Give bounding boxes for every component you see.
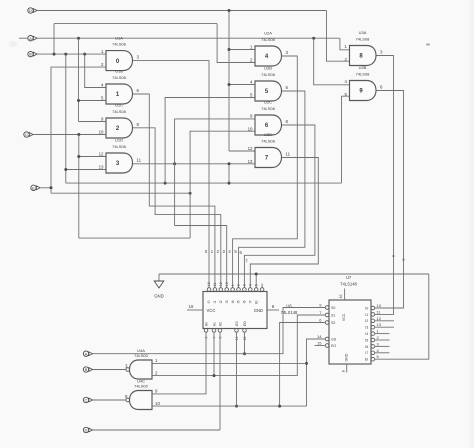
svg-text:U1B: U1B <box>115 69 123 74</box>
svg-text:GS: GS <box>235 321 239 327</box>
svg-text:A: A <box>29 36 32 41</box>
wire net E ext staircase <box>51 192 190 194</box>
svg-text:A: A <box>85 351 88 356</box>
U7 right pin 13 <box>371 325 375 329</box>
U6 top pin bubble 3 <box>219 288 223 292</box>
svg-text:12: 12 <box>248 146 253 151</box>
node net A branch2 <box>312 37 315 40</box>
U7 right pin 3 <box>371 345 375 349</box>
node net A branch1 <box>77 37 80 40</box>
svg-text:E: E <box>32 185 35 190</box>
svg-text:U3B: U3B <box>359 65 367 70</box>
wire net D horizontal <box>37 10 326 12</box>
svg-text:12: 12 <box>99 152 104 157</box>
svg-text:74LS08: 74LS08 <box>261 106 276 111</box>
svg-text:GS: GS <box>331 338 337 342</box>
svg-text:12: 12 <box>219 282 223 286</box>
wire net 7 from U2D out <box>250 158 318 288</box>
wire port A bottom to U7 A0 <box>93 308 325 354</box>
U7 right pin 1 <box>371 332 375 336</box>
svg-text:I4: I4 <box>231 300 235 303</box>
wire net 9 from U3B out to U7 pin 10 <box>375 91 404 309</box>
IC U7 74LS148 body <box>329 300 371 364</box>
wire net B horizontal to U1A pin 1 <box>37 53 106 55</box>
U7 right pin 12 <box>371 319 375 323</box>
svg-text:B: B <box>29 52 32 57</box>
U6 pin8 GND stub <box>267 309 279 311</box>
wire U6 EO down <box>244 336 246 354</box>
U6 bottom pin 14 <box>235 329 239 333</box>
output port D bottom <box>83 427 92 432</box>
U6 pin16 VCC stub <box>187 309 203 311</box>
svg-text:16: 16 <box>339 295 343 299</box>
svg-text:I1: I1 <box>365 313 368 317</box>
wire net B top rail <box>54 23 217 25</box>
node net B ext riser <box>164 182 167 185</box>
AND gate U1D 74LS08 <box>106 153 133 173</box>
wire GND to U7 EI <box>375 274 429 359</box>
svg-text:U3A: U3A <box>359 30 367 35</box>
AND gate U1B 74LS08 <box>106 84 133 104</box>
svg-text:5: 5 <box>254 284 258 286</box>
wire U7 pin 15 stub <box>315 345 326 347</box>
svg-text:13: 13 <box>377 322 382 327</box>
AND gate U2A 74LS08 <box>255 46 282 66</box>
node U7 A2 join <box>278 405 281 408</box>
svg-text:10: 10 <box>99 130 104 135</box>
wire U7 A2 to U4C pin 10 line <box>280 323 326 407</box>
wire U7 A1 to U4A pin 2 line <box>152 315 325 376</box>
wire net 2 from U1C out <box>133 128 221 288</box>
wire net D branch vertical x229 <box>228 11 230 152</box>
wire riser to U2B pin 5 <box>165 98 255 184</box>
U6 top pin bubble 10 <box>260 288 264 292</box>
wire net 3 from U1D out to U2D pin 13 <box>132 163 255 165</box>
node pin14 net at U4A pin 1 <box>305 362 308 365</box>
wire to U1C pin 9 <box>79 121 107 123</box>
svg-text:I6: I6 <box>243 300 247 303</box>
svg-text:12: 12 <box>377 316 382 321</box>
svg-text:10: 10 <box>377 303 382 308</box>
node net E <box>50 186 53 189</box>
wire net 3 drop to net B rail <box>228 164 230 183</box>
node net B j2 <box>64 53 67 56</box>
ground symbol <box>158 274 160 281</box>
node GS join <box>235 405 238 408</box>
svg-text:EO: EO <box>243 321 247 326</box>
output port A bottom <box>83 351 92 356</box>
svg-text:U2A: U2A <box>264 31 272 36</box>
U6 bottom pin 15 <box>243 329 247 333</box>
U6 bottom pin 9 <box>204 329 208 333</box>
wire net A horizontal <box>37 37 340 39</box>
wire to U1D pin 13 <box>66 169 106 171</box>
wire port D bottom <box>93 429 220 431</box>
svg-text:GND: GND <box>254 308 263 313</box>
wire net A vertical x78.5 <box>78 38 80 121</box>
wire net B rail down to U2A pin 2 <box>217 24 255 63</box>
U6 top pin bubble 8 <box>249 288 253 292</box>
wire to U2A pin 1 <box>229 49 255 51</box>
svg-text:8: 8 <box>341 370 345 372</box>
U7 left pin 14 <box>325 337 329 341</box>
svg-text:A2: A2 <box>218 322 222 326</box>
wire net C vertical <box>78 135 80 239</box>
U6 top pin bubble 9 <box>254 288 258 292</box>
svg-text:A1: A1 <box>212 322 216 326</box>
U6 top pin bubble 6 <box>237 288 241 292</box>
output port B bottom <box>83 367 92 372</box>
wire GND to U5 EI <box>255 274 257 288</box>
U7 left pin 7 <box>325 313 329 317</box>
AND gate U1C 74LS08 <box>106 118 133 138</box>
svg-text:13: 13 <box>99 165 104 170</box>
wire net A stub <box>19 37 28 39</box>
svg-text:VCC: VCC <box>342 313 346 321</box>
svg-text:U2D: U2D <box>264 132 272 137</box>
wire net 3 staircase to encoder <box>175 226 227 288</box>
wire U1A pin 2 feed <box>51 67 106 193</box>
U7 right pin 10 <box>371 306 375 310</box>
svg-text:74LS00: 74LS00 <box>134 383 149 388</box>
svg-text:S1: S1 <box>331 314 335 318</box>
svg-text:11: 11 <box>213 283 217 287</box>
svg-text:74LS08: 74LS08 <box>261 138 276 143</box>
svg-text:10: 10 <box>207 282 211 286</box>
svg-text:74LS08: 74LS08 <box>261 72 276 77</box>
svg-text:VCC: VCC <box>207 308 216 313</box>
NAND gate U4A 74LS00 <box>130 360 153 379</box>
svg-text:U1D: U1D <box>115 138 123 143</box>
wire U6 GS down <box>236 336 238 407</box>
IC U6 74LS148 priority encoder body <box>203 292 267 329</box>
wire net A to U3B pin 4 <box>314 38 350 85</box>
U7 right pin 5 <box>371 357 375 361</box>
U6 top pin bubble 1 <box>207 288 211 292</box>
U7 left pin 6 <box>325 321 329 325</box>
U6 bottom pin 6 <box>218 329 222 333</box>
svg-text:U2B: U2B <box>264 66 272 71</box>
svg-text:U1A: U1A <box>115 35 123 40</box>
wire to U2D pin 12 <box>229 150 255 152</box>
wire port E line <box>40 187 51 189</box>
svg-text:I7: I7 <box>249 300 253 303</box>
wire net 0 from U1A out <box>133 61 210 288</box>
svg-text:13: 13 <box>248 159 253 164</box>
wire net C horizontal to U1C pin 10 <box>33 134 106 136</box>
wire net A to U3A pin 1 <box>340 38 350 50</box>
svg-text:11: 11 <box>286 152 291 157</box>
svg-text:74LS148: 74LS148 <box>340 282 357 287</box>
wire U7 pin 14 to U4 pins <box>307 339 326 406</box>
wire U3B pin 5 from net B ext <box>342 96 350 183</box>
svg-text:EO: EO <box>331 344 336 348</box>
node net 3 branch <box>173 162 176 165</box>
svg-text:D: D <box>29 8 32 13</box>
svg-text:GND: GND <box>344 353 348 361</box>
svg-text:B: B <box>85 367 88 372</box>
svg-text:3: 3 <box>243 284 247 286</box>
node net E riser join <box>189 192 192 195</box>
wire U4C pin 10 line <box>152 405 307 407</box>
AND gate U2D 74LS08 <box>255 148 282 168</box>
output port C bottom <box>83 397 92 402</box>
svg-text:16: 16 <box>189 304 194 309</box>
svg-text:15: 15 <box>317 340 322 345</box>
svg-text:A0: A0 <box>204 322 208 326</box>
wire to U2B pin 4 <box>229 84 255 86</box>
input port B <box>28 51 37 56</box>
U6 bottom pin 7 <box>212 329 216 333</box>
wire U4C output to port C <box>89 399 126 401</box>
AND gate U2B 74LS08 <box>255 81 282 101</box>
scan artifacts <box>469 0 474 448</box>
wire net 1 from U1B out <box>133 94 215 288</box>
wire to U1D pin 12 <box>79 156 106 158</box>
svg-text:14: 14 <box>317 334 322 339</box>
wire to U1B pin 5 <box>79 100 107 102</box>
wire U6 A2 to port D <box>219 336 221 431</box>
node GND j <box>255 273 258 276</box>
input port C <box>24 132 33 137</box>
svg-text:74LS08: 74LS08 <box>356 36 371 41</box>
U7 right pin stubs I4-I7 <box>375 333 390 335</box>
svg-text:I1: I1 <box>213 300 217 303</box>
svg-text:EI: EI <box>254 300 258 303</box>
wire U6 A1 down to U4A pin 2 line <box>213 336 215 376</box>
svg-text:I7: I7 <box>365 351 368 355</box>
wire net B ext long rail <box>66 182 342 184</box>
wire GND rail <box>159 273 429 275</box>
U6 top pin bubble 5 <box>231 288 235 292</box>
svg-text:GND: GND <box>154 294 164 299</box>
wire net 8 from U3A out to U7 pin 11 <box>375 56 394 315</box>
svg-text:11: 11 <box>137 157 142 162</box>
svg-text:I6: I6 <box>365 345 368 349</box>
svg-text:U2C: U2C <box>264 100 272 105</box>
svg-text:74LS00: 74LS00 <box>134 353 149 358</box>
wire net 4 from U2A out <box>233 56 298 288</box>
svg-text:EI: EI <box>365 358 368 362</box>
AND gate U2C 74LS08 <box>255 115 282 135</box>
svg-text:I3: I3 <box>225 300 229 303</box>
node net B j3 <box>83 53 86 56</box>
svg-text:I2: I2 <box>219 300 223 303</box>
U6 top pin bubble 2 <box>213 288 217 292</box>
U7 VCC pin 16 stub <box>344 289 346 301</box>
wire net 6 from U2C out <box>244 125 315 288</box>
svg-text:74LS08: 74LS08 <box>112 109 127 114</box>
U7 right pin 4 <box>371 351 375 355</box>
wire riser x190.1 to U2C pin 10 <box>190 131 255 238</box>
svg-text:I3: I3 <box>365 326 368 330</box>
svg-text:4: 4 <box>249 284 253 286</box>
node EO join port A line <box>243 352 246 355</box>
NAND gate U4C 74LS00 <box>130 391 153 410</box>
node net B j1 <box>53 53 56 56</box>
svg-text:I0: I0 <box>207 300 211 303</box>
node net C branch <box>77 133 80 136</box>
svg-text:10: 10 <box>248 127 253 132</box>
svg-text:74LS08: 74LS08 <box>112 75 127 80</box>
svg-text:2: 2 <box>237 284 241 286</box>
svg-text:13: 13 <box>225 282 229 286</box>
svg-text:10: 10 <box>155 401 160 406</box>
U6 top pin 10 stub <box>261 284 263 288</box>
wire U6 A0 to U4 pin 9 <box>152 336 206 394</box>
wire net 3 riser to U2C pin 9 <box>175 119 255 226</box>
wire net B to U1B pin 4 <box>85 54 106 87</box>
U7 right pin stubs I2 I3 <box>375 320 395 322</box>
U6 top pin bubble 4 <box>225 288 229 292</box>
svg-text:D: D <box>85 428 88 433</box>
svg-text:I4: I4 <box>365 332 368 336</box>
U7 GND pin 8 stub <box>346 364 348 373</box>
U7 left pin 15 <box>325 344 329 348</box>
node net D branch <box>228 9 231 12</box>
svg-text:74LS08: 74LS08 <box>261 37 276 42</box>
svg-text:C: C <box>25 132 28 137</box>
input port D <box>28 8 37 13</box>
U7 right pin 11 <box>371 313 375 317</box>
node U6 A1 join <box>213 374 216 377</box>
AND gate U3A 74LS08 <box>350 46 377 66</box>
wire net B vertical x65.8 <box>65 54 67 183</box>
U7 right pin 2 <box>371 338 375 342</box>
svg-text:U7: U7 <box>346 275 352 280</box>
svg-text:C: C <box>85 398 88 403</box>
AND gate U3B 74LS08 <box>350 81 377 101</box>
wire net D vertical to U3A <box>327 11 350 62</box>
svg-text:I5: I5 <box>237 300 241 303</box>
svg-text:S2: S2 <box>331 321 335 325</box>
svg-text:U1C: U1C <box>115 103 123 108</box>
wire net C ext staircase <box>79 237 190 239</box>
svg-text:74LS08: 74LS08 <box>112 144 127 149</box>
U7 left pin 9 <box>325 306 329 310</box>
svg-text:I0: I0 <box>365 306 368 310</box>
svg-text:I2: I2 <box>365 319 368 323</box>
AND gate U1A 74LS08 <box>106 51 133 71</box>
svg-text:74LS08: 74LS08 <box>356 71 371 76</box>
svg-text:1: 1 <box>231 284 235 286</box>
svg-text:I5: I5 <box>365 338 368 342</box>
input port E <box>31 185 40 190</box>
wire net 5 from U2B out <box>239 91 305 288</box>
input port A <box>28 36 37 41</box>
wire net B rail riser <box>53 24 55 54</box>
wire U4A output to port B <box>89 369 126 371</box>
wire U4A pin 1 line <box>152 362 307 364</box>
U6 top pin bubble 7 <box>243 288 247 292</box>
svg-text:74LS08: 74LS08 <box>112 41 127 46</box>
svg-text:S0: S0 <box>331 306 335 310</box>
